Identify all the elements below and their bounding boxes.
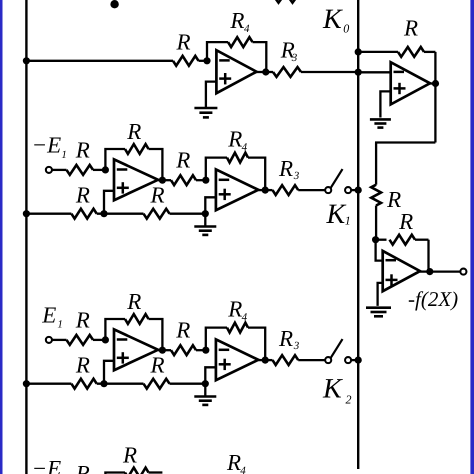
resistor R (interstage stage 2)	[162, 175, 205, 185]
svg-text:R: R	[75, 461, 90, 474]
label R (U4 feedback)	[403, 16, 418, 41]
label R (feedback 1 stage 2)	[126, 119, 141, 144]
switch lever (stage 2)	[331, 169, 343, 188]
label R4 (stage 3)	[227, 297, 247, 324]
wire stage-1 input	[26, 60, 173, 62]
wire to output terminal	[430, 270, 460, 272]
wire B1 output (stage 3)	[158, 349, 162, 351]
wire feedback loop 1 left+top (stage 3)	[105, 319, 125, 340]
svg-text:R: R	[229, 8, 244, 33]
svg-text:R: R	[175, 148, 190, 173]
svg-text:R: R	[227, 297, 242, 322]
resistor R4 (stage-1 feedback)	[228, 37, 253, 47]
node B2 output (stage 2)	[262, 187, 269, 194]
wire feedback loop left+top (stage 4, cut off)	[105, 473, 125, 474]
label R4	[229, 8, 250, 35]
node B2 output (stage 3)	[262, 357, 269, 364]
svg-text:1: 1	[57, 319, 63, 331]
wire U4 output	[430, 82, 435, 84]
wire B2 + input to rail (stage 2)	[205, 197, 216, 213]
node: summing bus / U4 input	[355, 69, 362, 76]
resistor R (rail 2 stage 2)	[144, 209, 170, 219]
node rail left bus (stage 3)	[23, 380, 30, 387]
ground (stage 3)	[194, 397, 216, 405]
wire rail segment 1 (stage 3)	[26, 383, 71, 385]
svg-text:3: 3	[291, 52, 298, 64]
label R (U5 feedback)	[398, 209, 413, 234]
ground (U4)	[370, 119, 391, 127]
wire B1 + input to rail (stage 2)	[104, 191, 114, 214]
svg-text:K: K	[326, 199, 347, 230]
svg-text:3: 3	[293, 170, 300, 182]
label R3 (stage 1)	[280, 38, 298, 65]
label R (rail 1 stage 2)	[75, 182, 90, 207]
node rail left bus (stage 2)	[23, 210, 30, 217]
op-amp B2 (stage 3)	[216, 339, 258, 380]
svg-text:R: R	[175, 318, 190, 343]
terminal: input E (stage 2)	[46, 167, 52, 173]
wire U4 output to lower stage (horizontal)	[375, 141, 435, 143]
svg-text:R: R	[150, 183, 165, 208]
resistor R (rail 2 stage 3)	[144, 379, 170, 389]
wire A1 + input to ground	[206, 82, 217, 108]
node A1 output	[262, 68, 269, 75]
resistor R (series, between summing amps)	[371, 185, 381, 206]
op-amp U5 (output summing amp)	[383, 251, 420, 291]
label R (input stage 4, cut off)	[75, 461, 90, 474]
wire U5 + input to ground	[378, 283, 383, 306]
ground (stage 1)	[194, 108, 217, 117]
label -E (stage 4 input, cut off)	[32, 456, 62, 474]
wire rail segment 3 (stage 2)	[170, 213, 206, 215]
wire U4 feedback right side / output drop	[434, 52, 436, 143]
switch contact right (stage 3)	[345, 357, 351, 363]
svg-text:R: R	[278, 326, 293, 351]
resistor R (U4 feedback)	[358, 47, 435, 57]
node rail junction (stage 2)	[100, 210, 107, 217]
label R (interstage stage 3)	[175, 318, 190, 343]
terminal: output -f(2X)	[460, 269, 466, 275]
wire feedback loop 1 left+top (stage 2)	[105, 149, 125, 170]
svg-text:R: R	[278, 156, 293, 181]
svg-text:4: 4	[242, 311, 248, 323]
wire U4 output to series R (vertical)	[375, 143, 377, 185]
node switch on summing bus (stage 3)	[355, 357, 362, 364]
wire rail segment 1 (stage 2)	[26, 213, 71, 215]
label R (feedback stage 4)	[122, 443, 137, 468]
wire ground stem (stage 3)	[204, 384, 206, 397]
label R3 (stage 3)	[278, 326, 300, 352]
resistor R (interstage stage 3)	[162, 345, 205, 355]
wire U5 - input	[376, 240, 383, 261]
node stage-1 summing junction	[203, 57, 210, 64]
resistor R (stage-1 input)	[173, 56, 207, 66]
wire feedback loop 2 left+top (stage 2)	[206, 158, 227, 181]
node B1 output (stage 3)	[159, 347, 166, 354]
svg-text:R: R	[176, 29, 191, 54]
label R (feedback 1 stage 3)	[126, 289, 141, 314]
svg-text:-f(2X): -f(2X)	[408, 287, 458, 311]
svg-text:−E: −E	[32, 456, 62, 474]
node U5 summing junction	[372, 236, 379, 243]
label R (input stage 3)	[75, 308, 90, 333]
label R (input stage 2)	[75, 138, 90, 163]
wire rail segment 2 (stage 3)	[97, 383, 144, 385]
svg-text:1: 1	[345, 213, 351, 227]
resistor R (feedback stage 4, cut off)	[125, 468, 162, 474]
svg-text:R: R	[75, 308, 90, 333]
node rail junction (stage 3)	[100, 380, 107, 387]
svg-text:1: 1	[61, 149, 67, 161]
wire switch to bus (stage 3)	[351, 359, 358, 361]
wire B2 output (stage 3)	[258, 359, 265, 361]
label R (rail 1 stage 3)	[75, 352, 90, 377]
resistor (cut off at top edge, zigzag bottom)	[275, 0, 303, 3]
label E1 (stage 3 input)	[41, 302, 63, 330]
wire U5 feedback right side	[427, 240, 429, 272]
switch lever (stage 3)	[331, 339, 343, 358]
label R4 (stage 2)	[227, 127, 247, 154]
svg-text:K: K	[322, 4, 343, 35]
label K0	[322, 4, 349, 36]
junction dot (cut off at top edge)	[110, 0, 118, 8]
node summing junction 2 (stage 2)	[202, 177, 209, 184]
label -f(2X)	[408, 287, 458, 311]
wire feedback loop 2 right (stage 3)	[248, 328, 265, 361]
resistor R4 (stage 3)	[227, 323, 248, 333]
svg-text:R: R	[75, 138, 90, 163]
ground (stage 2)	[194, 227, 216, 235]
wire rail segment 3 (stage 3)	[170, 383, 206, 385]
svg-text:R: R	[75, 182, 90, 207]
label -E1 (stage 2 input)	[32, 133, 67, 161]
wire: left input bus (X)	[25, 0, 27, 474]
switch contact left (stage 2)	[325, 187, 331, 193]
node summing junction 1 (stage 2)	[102, 166, 109, 173]
wire feedback loop 1 right (stage 3)	[149, 319, 163, 350]
resistor R3 (stage 1)	[266, 67, 358, 77]
resistor R (rail 1 stage 2)	[71, 209, 96, 219]
wire series R to U5 node	[375, 206, 377, 240]
node switch on summing bus (stage 2)	[355, 187, 362, 194]
svg-text:R: R	[75, 352, 90, 377]
wire feedback loop 2 left+top (stage 3)	[206, 328, 227, 351]
terminal: input E (stage 3)	[46, 337, 52, 343]
op-amp U4 (first summing amp)	[391, 62, 430, 104]
wire stage-1 feedback loop (left+top)	[207, 42, 228, 61]
label R4 (stage 4, cut off)	[226, 450, 246, 474]
svg-text:2: 2	[346, 392, 352, 406]
svg-text:R: R	[126, 119, 141, 144]
label R (interstage stage 2)	[175, 148, 190, 173]
label K1	[326, 199, 351, 230]
wire stage-1 feedback loop (right)	[253, 42, 267, 72]
wire U4 - input	[358, 71, 391, 73]
svg-text:4: 4	[244, 23, 250, 35]
wire input (stage 2)	[52, 169, 66, 171]
node U4 output	[432, 80, 439, 87]
wire: summing bus (to K switches)	[357, 0, 359, 469]
node summing junction 2 (stage 3)	[202, 347, 209, 354]
wire U5 output	[420, 270, 430, 272]
svg-text:3: 3	[293, 340, 300, 352]
node: summing bus / feedback R	[355, 48, 362, 55]
switch contact right (stage 2)	[345, 187, 351, 193]
node: left bus to stage-1 junction	[23, 57, 30, 64]
label R (stage-1 input)	[176, 29, 191, 54]
node summing junction 1 (stage 3)	[102, 336, 109, 343]
svg-text:R: R	[150, 353, 165, 378]
node rail ground junction (stage 3)	[202, 380, 209, 387]
wire input (stage 3)	[52, 339, 66, 341]
wire feedback loop 2 right (stage 2)	[248, 158, 265, 191]
wire B1 output (stage 2)	[158, 179, 162, 181]
label R (rail 2 stage 2)	[150, 183, 165, 208]
resistor R (feedback 1 stage 2)	[125, 144, 149, 154]
resistor R3 (stage 3)	[265, 355, 325, 365]
svg-text:R: R	[403, 16, 418, 41]
svg-text:R: R	[227, 127, 242, 152]
ground (U5)	[366, 308, 391, 317]
label R3 (stage 2)	[278, 156, 300, 182]
node B1 output (stage 2)	[159, 177, 166, 184]
op-amp B2 (stage 2)	[216, 169, 258, 210]
svg-text:4: 4	[240, 465, 246, 474]
label K2	[322, 374, 352, 407]
resistor R3 (stage 2)	[265, 185, 325, 195]
svg-text:E: E	[41, 302, 56, 327]
label R (rail 2 stage 3)	[150, 353, 165, 378]
op-amp A1 (stage 1)	[216, 50, 256, 93]
switch contact left (stage 3)	[325, 357, 331, 363]
wire B2 output (stage 2)	[258, 189, 265, 191]
resistor R (rail 1 stage 3)	[71, 379, 96, 389]
wire B2 + input to rail (stage 3)	[205, 367, 216, 383]
resistor R (input stage 2)	[67, 165, 106, 175]
node U5 output	[426, 268, 433, 275]
resistor R (input stage 3)	[67, 335, 106, 345]
svg-text:K: K	[322, 374, 343, 405]
wire rail segment 2 (stage 2)	[97, 213, 144, 215]
resistor R4 (stage 2)	[227, 153, 248, 163]
svg-text:R: R	[122, 443, 137, 468]
svg-text:4: 4	[242, 141, 248, 153]
wire B1 + input to rail (stage 3)	[104, 361, 114, 384]
label R (series)	[386, 187, 401, 212]
resistor R (feedback 1 stage 3)	[125, 314, 149, 324]
wire switch to bus (stage 2)	[351, 189, 358, 191]
svg-text:R: R	[398, 209, 413, 234]
op-amp B1 (stage 2)	[114, 159, 158, 200]
node rail ground junction (stage 2)	[202, 210, 209, 217]
wire U4 + input to ground	[380, 91, 390, 117]
wire feedback loop 1 right (stage 2)	[149, 149, 163, 180]
wire ground stem (stage 2)	[204, 214, 206, 227]
svg-text:−E: −E	[32, 133, 62, 158]
svg-text:0: 0	[343, 22, 349, 36]
resistor R (U5 feedback)	[376, 235, 429, 245]
svg-text:R: R	[226, 450, 241, 474]
svg-text:R: R	[126, 289, 141, 314]
op-amp B1 (stage 3)	[114, 329, 158, 370]
wire A1 output	[257, 71, 267, 73]
